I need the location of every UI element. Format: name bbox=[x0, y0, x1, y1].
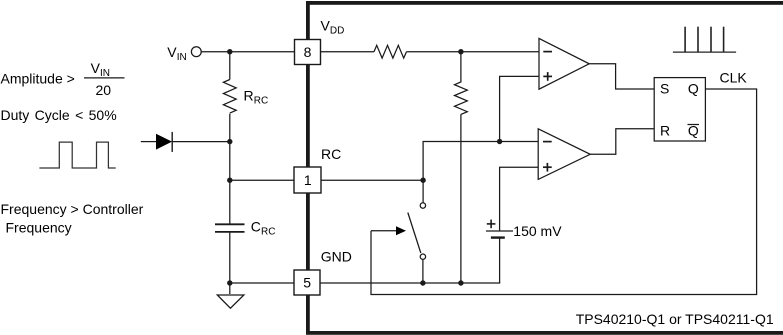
resistor RRC bbox=[223, 80, 236, 114]
wire battery to GND rail bbox=[499, 238, 501, 283]
svg-text:IN: IN bbox=[177, 52, 187, 63]
svg-text:8: 8 bbox=[304, 44, 312, 60]
node switch-gnd bbox=[420, 280, 425, 285]
svg-text:Q: Q bbox=[688, 81, 699, 97]
node RC right bbox=[420, 178, 425, 183]
node divider tap bbox=[458, 49, 463, 54]
switch S1 bottom contact bbox=[420, 254, 425, 259]
terminal VIN circle bbox=[191, 47, 201, 57]
svg-text:Amplitude >: Amplitude > bbox=[1, 71, 75, 87]
ground symbol bbox=[217, 295, 244, 308]
wire RRC to diode node bbox=[229, 114, 231, 142]
node RC left bbox=[227, 178, 232, 183]
pin 8 box bbox=[295, 40, 321, 65]
clock pulse train symbol bbox=[673, 27, 736, 52]
svg-text:Q: Q bbox=[688, 123, 699, 139]
Qbar overline bbox=[688, 124, 700, 126]
svg-text:RC: RC bbox=[321, 146, 341, 162]
wire RC pin row left bbox=[230, 179, 294, 181]
switch S1 lever bbox=[408, 213, 421, 254]
resistor (divider top, horizontal) bbox=[374, 45, 406, 58]
svg-text:RC: RC bbox=[261, 227, 275, 238]
switch S1 top contact bbox=[420, 203, 425, 208]
wire U1B output to latch R bbox=[590, 129, 654, 155]
wire comparator U1A plus input bbox=[500, 76, 539, 141]
node diode junction bbox=[227, 139, 232, 144]
node divider bottom bbox=[458, 280, 463, 285]
svg-text:20: 20 bbox=[96, 82, 112, 98]
svg-text:R: R bbox=[244, 87, 254, 103]
battery plus sign vertical bbox=[490, 220, 492, 229]
SR latch U2 bbox=[654, 78, 705, 141]
diode D1 bbox=[156, 134, 172, 150]
pin 1 box bbox=[294, 167, 321, 193]
wire switch bottom to GND rail bbox=[422, 259, 424, 283]
svg-text:GND: GND bbox=[321, 248, 352, 264]
wire RC node to capacitor bbox=[229, 180, 231, 224]
wire resistor to comparator minus bbox=[407, 51, 540, 53]
IC boundary box U1 bbox=[308, 3, 783, 333]
wire comparator U1B plus input to battery bbox=[500, 167, 539, 231]
svg-text:C: C bbox=[251, 219, 261, 235]
node VIN bbox=[227, 49, 232, 54]
wire GND rail (pin 5 row right) bbox=[321, 282, 501, 284]
svg-text:Frequency > Controller: Frequency > Controller bbox=[1, 201, 144, 217]
battery V1 bottom plate bbox=[491, 236, 505, 238]
sync square wave symbol bbox=[39, 142, 115, 168]
wire RC pin row right bbox=[321, 179, 423, 181]
op-amp comparator U1B (lower) bbox=[538, 129, 590, 180]
arrow to switch bbox=[371, 230, 397, 232]
battery plus sign bbox=[487, 223, 496, 225]
svg-text:CLK: CLK bbox=[720, 70, 748, 86]
diode D1 cathode bar bbox=[171, 132, 173, 152]
wire U1A output to latch S bbox=[589, 64, 654, 89]
node cap-gnd bbox=[227, 280, 232, 285]
wire RC node to switch top bbox=[422, 180, 424, 203]
op-amp comparator U1A (upper) bbox=[539, 38, 589, 89]
svg-text:Frequency: Frequency bbox=[6, 219, 72, 235]
wire capacitor to gnd node bbox=[229, 232, 231, 283]
capacitor CRC top plate bbox=[215, 223, 245, 225]
fraction bar bbox=[84, 77, 125, 79]
node RC sense bbox=[497, 139, 502, 144]
wire pin 8 to resistor bbox=[321, 51, 375, 53]
wire VIN to pin 8 bbox=[201, 51, 294, 53]
wire diode node to RC node bbox=[229, 142, 231, 181]
svg-text:TPS40210-Q1 or TPS40211-Q1: TPS40210-Q1 or TPS40211-Q1 bbox=[576, 311, 774, 327]
svg-text:RC: RC bbox=[254, 96, 268, 107]
svg-text:Duty Cycle < 50%: Duty Cycle < 50% bbox=[1, 107, 117, 123]
wire VIN node down to RRC bbox=[229, 52, 231, 80]
wire Q output / CLK feedback to switch arrow bbox=[371, 89, 757, 295]
svg-text:1: 1 bbox=[304, 172, 312, 188]
svg-text:150 mV: 150 mV bbox=[513, 223, 562, 239]
pin 5 box bbox=[294, 270, 320, 295]
svg-text:5: 5 bbox=[303, 275, 311, 291]
wire comparator U1B minus input bbox=[423, 142, 538, 181]
capacitor CRC bottom plate bbox=[215, 231, 245, 233]
svg-text:R: R bbox=[660, 123, 670, 139]
resistor (divider bottom, vertical) bbox=[455, 52, 468, 115]
wire gnd node to ground symbol bbox=[229, 283, 231, 294]
svg-text:S: S bbox=[660, 81, 669, 97]
wire divider bottom to GND rail bbox=[460, 114, 462, 283]
wire diode cathode to node bbox=[172, 141, 230, 143]
battery V1 150mV top plate bbox=[486, 230, 513, 232]
sync diode D1 anode wire bbox=[141, 141, 157, 143]
svg-text:DD: DD bbox=[330, 26, 344, 37]
wire pin 5 row left bbox=[230, 282, 294, 284]
